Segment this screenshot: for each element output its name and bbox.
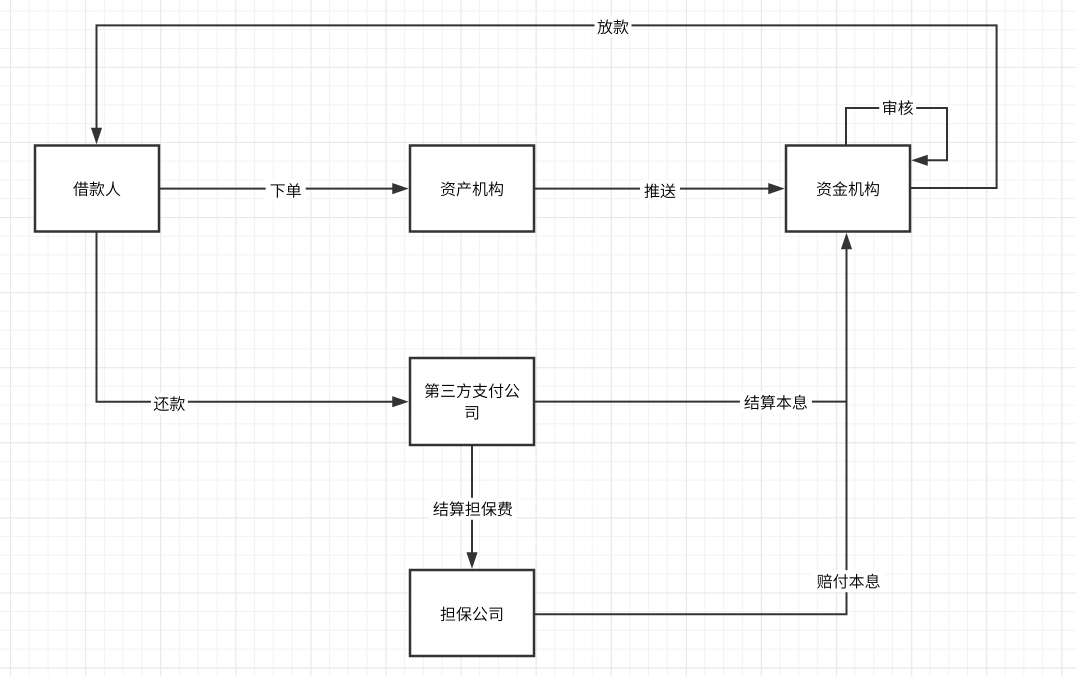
box 担保公司 <box>410 570 534 656</box>
wire 下单 : 借款人 -> 资产机构 <box>159 180 409 202</box>
box 资产机构 <box>410 146 534 232</box>
wire 结算本息 : 第三方支付公司 -> 资金机构 <box>534 391 847 413</box>
box 资金机构 <box>786 146 910 232</box>
wire 还款 : 借款人 -> 第三方支付公司 <box>97 232 409 415</box>
wire 放款 : 资金机构 -> 借款人 (top route) <box>91 16 997 188</box>
wire 赔付本息 : 担保公司 -> 资金机构 <box>535 233 885 615</box>
wire 推送 : 资产机构 -> 资金机构 <box>534 180 785 202</box>
box 借款人 <box>35 146 159 232</box>
wire 审核 : 资金机构 self loop <box>846 97 947 166</box>
wire 结算担保费 : 第三方支付公司 -> 担保公司 <box>429 445 517 569</box>
box 第三方支付公司 <box>410 358 534 445</box>
